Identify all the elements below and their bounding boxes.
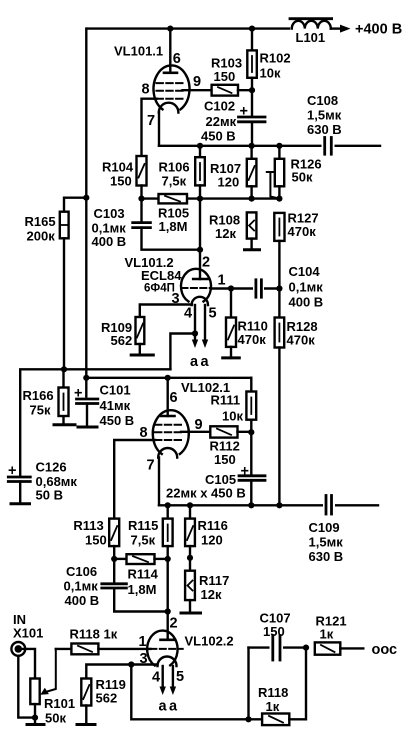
wire node row stage1 bbox=[138, 196, 282, 202]
svg-text:R116: R116 bbox=[198, 518, 228, 533]
svg-text:5: 5 bbox=[176, 669, 184, 685]
resistor R105 bbox=[158, 194, 189, 234]
svg-text:1,8М: 1,8М bbox=[128, 582, 157, 597]
svg-text:50к: 50к bbox=[45, 711, 66, 726]
svg-text:120: 120 bbox=[218, 175, 240, 190]
ground R109 bbox=[131, 354, 153, 357]
resistor R113 bbox=[73, 518, 119, 559]
svg-text:22мк: 22мк bbox=[206, 114, 237, 129]
svg-text:150: 150 bbox=[85, 533, 107, 548]
wire B+ tall vertical bbox=[85, 29, 87, 397]
svg-text:VL101.1: VL101.1 bbox=[114, 44, 163, 59]
wire pin8 to R104 bbox=[142, 99, 157, 156]
svg-text:470к: 470к bbox=[287, 333, 316, 348]
svg-text:L101: L101 bbox=[296, 30, 326, 45]
resistor R104 bbox=[102, 156, 147, 199]
resistor R103 bbox=[211, 56, 242, 96]
svg-text:6: 6 bbox=[173, 51, 181, 67]
svg-text:41мк: 41мк bbox=[100, 398, 131, 413]
resistor R114 bbox=[111, 554, 171, 597]
svg-text:400 В: 400 В bbox=[92, 234, 127, 249]
svg-text:C101: C101 bbox=[100, 383, 131, 398]
svg-text:0,1мк: 0,1мк bbox=[289, 280, 324, 295]
resistor R128 bbox=[275, 285, 318, 505]
svg-text:150: 150 bbox=[263, 624, 285, 639]
svg-text:150: 150 bbox=[110, 174, 132, 189]
wire VL102.1 cathode lead bbox=[158, 458, 160, 506]
resistor R117 bbox=[185, 555, 229, 613]
svg-text:R118: R118 bbox=[70, 627, 100, 642]
resistor R110 bbox=[226, 285, 268, 358]
wire feedback bottom bbox=[131, 665, 262, 723]
svg-text:X101: X101 bbox=[13, 626, 43, 641]
resistor R119 bbox=[81, 677, 126, 725]
svg-text:50к: 50к bbox=[292, 170, 313, 185]
svg-text:1к: 1к bbox=[104, 627, 118, 642]
svg-text:5: 5 bbox=[209, 306, 217, 322]
capacitor C107 bbox=[249, 611, 310, 720]
svg-text:0,1мк: 0,1мк bbox=[64, 579, 99, 594]
resistor R109 bbox=[101, 317, 144, 355]
ground C101 bbox=[78, 426, 97, 429]
svg-text:R101: R101 bbox=[44, 696, 75, 711]
ground R101 bbox=[27, 723, 44, 726]
resistor R166 bbox=[23, 369, 69, 425]
tube VL101.1 pentode bbox=[114, 44, 201, 130]
svg-text:450 В: 450 В bbox=[201, 129, 236, 144]
resistor R116 bbox=[185, 502, 228, 558]
resistor R102 bbox=[247, 26, 290, 91]
resistor R108 bbox=[209, 212, 256, 249]
wire B+ top rail bbox=[87, 27, 289, 29]
node +400V arrow bbox=[340, 22, 402, 38]
svg-text:9: 9 bbox=[193, 74, 201, 90]
svg-text:6Ф4П: 6Ф4П bbox=[144, 283, 175, 295]
resistor R127 bbox=[274, 211, 318, 289]
svg-text:22мк x 450 В: 22мк x 450 В bbox=[166, 486, 246, 501]
svg-text:10к: 10к bbox=[222, 409, 243, 424]
ground R117 bbox=[181, 612, 201, 615]
svg-text:7: 7 bbox=[147, 113, 155, 129]
capacitor C101 bbox=[74, 383, 134, 429]
potentiometer R126 bbox=[267, 143, 322, 199]
ground R166 bbox=[54, 423, 75, 426]
ground R119 bbox=[77, 723, 95, 726]
svg-text:а: а bbox=[159, 699, 168, 715]
svg-text:4: 4 bbox=[152, 670, 160, 686]
wire VL102.2 anode feed bbox=[165, 559, 171, 640]
heater leads VL101.2 pins 4 5 bbox=[190, 305, 210, 370]
svg-text:C109: C109 bbox=[309, 520, 340, 535]
wire VL101.2 anode feed bbox=[197, 199, 203, 279]
svg-text:а: а bbox=[190, 354, 199, 370]
resistor R118 feedback bbox=[258, 648, 306, 726]
capacitor C105 bbox=[166, 432, 265, 505]
svg-text:6: 6 bbox=[170, 390, 178, 406]
svg-text:1к: 1к bbox=[266, 699, 280, 714]
resistor R115 bbox=[128, 502, 173, 559]
resistor R165 bbox=[25, 195, 90, 370]
svg-text:1: 1 bbox=[139, 634, 147, 650]
inductor L101 bbox=[290, 19, 341, 45]
svg-text:C103: C103 bbox=[94, 206, 125, 221]
svg-text:R114: R114 bbox=[128, 567, 159, 582]
svg-text:R118: R118 bbox=[258, 685, 288, 700]
svg-text:1: 1 bbox=[218, 273, 226, 289]
svg-text:200к: 200к bbox=[27, 229, 56, 244]
svg-text:R115: R115 bbox=[128, 518, 158, 533]
svg-text:7,5к: 7,5к bbox=[131, 533, 156, 548]
svg-text:1к: 1к bbox=[320, 627, 334, 642]
capacitor C109 bbox=[309, 496, 344, 565]
svg-text:VL102.2: VL102.2 bbox=[185, 634, 234, 649]
resistor R107 bbox=[210, 143, 256, 199]
resistor R118 input bbox=[56, 627, 151, 655]
svg-text:450 В: 450 В bbox=[100, 413, 135, 428]
wire pin9 to R112 bbox=[181, 431, 213, 433]
svg-text:R106: R106 bbox=[159, 160, 190, 175]
wire pin4 heater reference bbox=[170, 330, 198, 369]
svg-text:1,8М: 1,8М bbox=[159, 219, 188, 234]
svg-text:4: 4 bbox=[184, 306, 192, 322]
svg-text:1,5мк: 1,5мк bbox=[307, 108, 342, 123]
svg-text:150: 150 bbox=[214, 69, 236, 84]
wire VL101.1 cathode lead bbox=[158, 113, 160, 146]
svg-text:120: 120 bbox=[201, 533, 223, 548]
wire jack ground bbox=[18, 656, 38, 721]
svg-text:оос: оос bbox=[372, 642, 398, 658]
svg-text:10к: 10к bbox=[260, 66, 281, 81]
wire VL101.2 cathode pin3 bbox=[140, 305, 192, 318]
connector X101 bbox=[11, 612, 43, 679]
svg-text:7,5к: 7,5к bbox=[162, 174, 187, 189]
svg-text:ECL84: ECL84 bbox=[141, 268, 182, 283]
ground C126 bbox=[11, 502, 30, 505]
resistor R111 bbox=[211, 378, 257, 432]
wire bus cathode line bbox=[159, 145, 380, 147]
tube VL102.2 triode bbox=[139, 616, 234, 686]
wire R103 to R102 node bbox=[238, 87, 255, 93]
svg-text:R104: R104 bbox=[102, 160, 134, 175]
svg-text:R117: R117 bbox=[199, 573, 229, 588]
svg-text:150: 150 bbox=[214, 452, 236, 467]
svg-text:C106: C106 bbox=[66, 564, 97, 579]
wire pin8 to R113 bbox=[114, 440, 155, 519]
wire divider line A bbox=[20, 366, 170, 475]
svg-text:2: 2 bbox=[170, 616, 178, 632]
capacitor C104 bbox=[253, 264, 323, 310]
svg-text:400 В: 400 В bbox=[289, 295, 324, 310]
resistor R121 bbox=[315, 614, 364, 655]
svg-text:8: 8 bbox=[140, 425, 148, 441]
svg-text:8: 8 bbox=[142, 82, 150, 98]
svg-text:C108: C108 bbox=[307, 93, 338, 108]
svg-text:470к: 470к bbox=[288, 224, 317, 239]
svg-text:562: 562 bbox=[96, 691, 118, 706]
svg-text:562: 562 bbox=[111, 333, 133, 348]
svg-text:R113: R113 bbox=[73, 518, 103, 533]
wire bus2 cathode line bbox=[159, 502, 378, 508]
capacitor C103 bbox=[92, 199, 201, 250]
svg-text:75к: 75к bbox=[30, 403, 51, 418]
svg-text:1,5мк: 1,5мк bbox=[309, 535, 344, 550]
svg-text:7: 7 bbox=[147, 458, 155, 474]
wire VL102.2 cathode pin3 bbox=[86, 661, 157, 678]
svg-text:+400 В: +400 В bbox=[355, 22, 402, 38]
svg-text:C102: C102 bbox=[204, 99, 235, 114]
svg-text:а: а bbox=[169, 699, 178, 715]
svg-text:R165: R165 bbox=[25, 214, 56, 229]
wire line B supply bbox=[83, 375, 251, 381]
wire VL101.2 grid pin1 bbox=[211, 287, 279, 289]
potentiometer R101 bbox=[30, 649, 75, 726]
svg-text:12к: 12к bbox=[215, 226, 236, 241]
svg-text:R111: R111 bbox=[211, 393, 241, 408]
capacitor C106 bbox=[64, 559, 168, 612]
capacitor C102 bbox=[201, 90, 265, 146]
svg-text:470к: 470к bbox=[238, 332, 267, 347]
svg-text:630 В: 630 В bbox=[307, 122, 342, 137]
svg-text:12к: 12к bbox=[201, 587, 222, 602]
heater leads VL102.2 pins 4 5 bbox=[159, 666, 179, 715]
wire pin9 to R103 bbox=[183, 89, 212, 91]
svg-text:C104: C104 bbox=[289, 264, 321, 279]
svg-text:а: а bbox=[201, 354, 210, 370]
wire VL102.1 anode lead bbox=[166, 378, 168, 416]
resistor R112 bbox=[210, 426, 255, 467]
svg-text:R102: R102 bbox=[260, 51, 291, 66]
capacitor C108 bbox=[307, 93, 342, 155]
wire VL101.1 anode lead bbox=[167, 26, 173, 73]
tube VL101.2 triode bbox=[125, 255, 226, 322]
svg-text:630 В: 630 В bbox=[309, 549, 344, 564]
svg-text:50 В: 50 В bbox=[36, 488, 63, 503]
ground R110 bbox=[223, 356, 240, 359]
tube VL102.1 pentode bbox=[140, 380, 231, 474]
svg-text:2: 2 bbox=[202, 255, 210, 271]
ground R108 bbox=[245, 248, 260, 251]
capacitor C126 bbox=[8, 460, 77, 504]
svg-text:400 В: 400 В bbox=[65, 593, 100, 608]
resistor R106 bbox=[159, 143, 205, 199]
svg-text:C126: C126 bbox=[36, 460, 67, 475]
svg-text:R166: R166 bbox=[23, 388, 54, 403]
node ooc output bbox=[372, 642, 398, 658]
